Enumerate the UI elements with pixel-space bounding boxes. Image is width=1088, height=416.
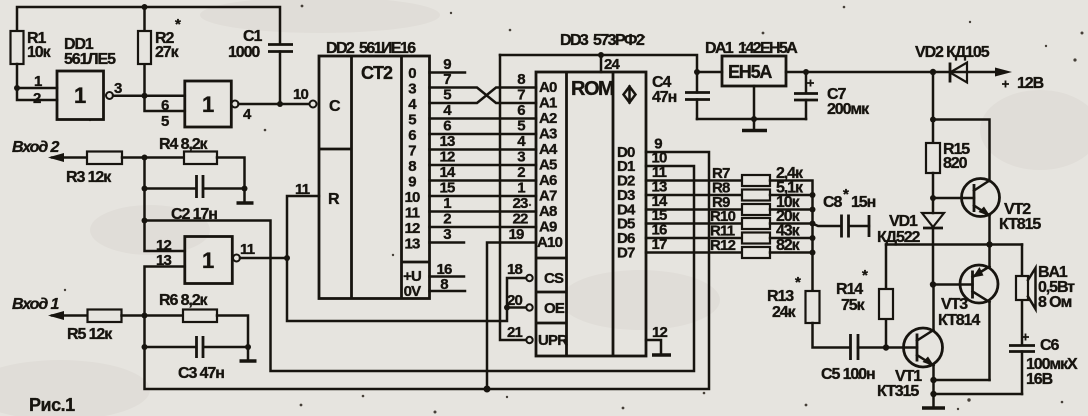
- svg-text:A9: A9: [539, 219, 557, 236]
- svg-text:16В: 16В: [1026, 371, 1053, 388]
- svg-text:11: 11: [405, 205, 420, 222]
- wire output9 to A6: [430, 179, 537, 182]
- wire D3 row: [646, 194, 742, 197]
- svg-text:11: 11: [295, 181, 310, 198]
- wire D5 row: [646, 222, 742, 225]
- resistor R8: [742, 190, 770, 201]
- wire VT1 collector to VT3 base node: [933, 285, 973, 331]
- wire R3 to R4: [122, 156, 184, 159]
- rom PROM diamond symbol: [624, 87, 636, 103]
- svg-text:C5 100н: C5 100н: [821, 366, 875, 383]
- node C1 bottom: [277, 101, 283, 107]
- svg-text:КТ814: КТ814: [938, 312, 980, 329]
- svg-text:1000: 1000: [228, 44, 260, 61]
- node R1 bottom junction: [14, 85, 20, 91]
- svg-text:5: 5: [517, 118, 525, 135]
- svg-text:13: 13: [404, 236, 420, 253]
- wire pin8 stub: [430, 290, 466, 293]
- wire pin24 stub: [600, 55, 603, 72]
- resistor R11: [742, 233, 770, 244]
- wire R6 right to ground: [217, 316, 248, 361]
- svg-text:14: 14: [439, 164, 456, 181]
- wire gate3 output: [240, 257, 287, 260]
- svg-text:24: 24: [604, 56, 621, 73]
- wire VD2 node down to R15: [932, 72, 935, 143]
- wire VT1 emitter chain to ground: [932, 366, 935, 408]
- op-amp DD1.1 gate: [57, 71, 104, 120]
- svg-text:C8: C8: [823, 194, 842, 211]
- svg-text:A6: A6: [539, 172, 557, 189]
- svg-text:0V: 0V: [404, 283, 422, 300]
- transistor VT3 КТ814: [960, 265, 998, 303]
- wire output node rail: [886, 243, 1022, 246]
- wire D7 row: [646, 251, 742, 254]
- svg-text:11: 11: [240, 241, 255, 258]
- op-amp DD1.3 gate: [185, 237, 233, 284]
- wire summing bus: [770, 181, 813, 292]
- svg-text:DD3 573РФ2: DD3 573РФ2: [560, 32, 645, 49]
- wire output8 to A5: [430, 164, 537, 167]
- resistor R12: [742, 247, 770, 258]
- svg-text:5: 5: [443, 87, 451, 104]
- svg-text:R14: R14: [836, 281, 863, 298]
- wire R1 bottom to gate inputs: [17, 64, 57, 100]
- svg-text:3: 3: [443, 226, 451, 243]
- wire pin16 stub: [430, 275, 465, 278]
- svg-text:820: 820: [943, 155, 968, 172]
- svg-text:3: 3: [517, 149, 525, 166]
- wire output6 to A3: [430, 133, 537, 136]
- wire output13 stub: [430, 241, 465, 244]
- svg-text:5: 5: [161, 113, 169, 130]
- svg-text:10: 10: [404, 189, 420, 206]
- svg-text:UPR: UPR: [538, 332, 568, 349]
- svg-text:8: 8: [408, 158, 416, 175]
- svg-text:A8: A8: [539, 203, 557, 220]
- svg-text:C1: C1: [243, 28, 262, 45]
- wire rom pin12 ground: [646, 340, 661, 354]
- svg-text:CS: CS: [544, 270, 564, 287]
- svg-text:A3: A3: [539, 126, 557, 143]
- capacitor C2: [145, 187, 245, 190]
- svg-text:23: 23: [512, 195, 528, 212]
- svg-text:3: 3: [408, 81, 416, 98]
- capacitor C8: [813, 224, 870, 227]
- svg-text:2: 2: [443, 211, 451, 228]
- wire input2 arrow: [52, 156, 87, 159]
- resistor R15: [926, 143, 940, 173]
- resistor R4: [184, 152, 217, 165]
- svg-text:13: 13: [156, 252, 172, 269]
- wire gate1 output to gate2 pin6: [113, 95, 185, 98]
- svg-text:8 Ом: 8 Ом: [1038, 294, 1071, 311]
- svg-text:3: 3: [114, 80, 122, 97]
- svg-text:A4: A4: [539, 141, 558, 158]
- rom DD3 box: [536, 72, 646, 356]
- wire ground rail under EH5A: [697, 86, 806, 129]
- svg-text:27к: 27к: [155, 44, 180, 61]
- svg-text:R13: R13: [767, 288, 794, 305]
- svg-text:R5 12к: R5 12к: [67, 326, 113, 343]
- svg-text:6: 6: [443, 118, 451, 135]
- node +12V arrow: [995, 68, 1012, 77]
- counter DD2 box: [319, 56, 430, 299]
- svg-text:1: 1: [443, 195, 451, 212]
- svg-text:A5: A5: [539, 157, 557, 174]
- svg-text:1: 1: [517, 180, 525, 197]
- wire input1 arrow: [52, 314, 88, 317]
- wire VT2 collector branch: [933, 120, 990, 182]
- capacitor C4: [685, 93, 710, 100]
- transistor VT1 КТ315: [904, 328, 943, 367]
- svg-text:R: R: [328, 191, 340, 208]
- wire EH5A right pin to VD2: [786, 71, 996, 74]
- resistor R10: [742, 218, 770, 229]
- resistor R14: [879, 289, 893, 319]
- capacitor C7: [805, 72, 808, 119]
- svg-text:561ЛЕ5: 561ЛЕ5: [64, 51, 116, 68]
- wire gate3 out to DD2 R and ROM CS/OE: [287, 196, 526, 321]
- capacitor C3: [145, 346, 249, 349]
- svg-text:C6: C6: [1040, 337, 1059, 354]
- svg-text:DD2 561ИЕ16: DD2 561ИЕ16: [326, 40, 416, 57]
- svg-text:20: 20: [507, 292, 523, 309]
- wire R4 right to ground: [217, 158, 245, 203]
- svg-text:47н: 47н: [652, 89, 677, 106]
- node UPR bubble: [526, 337, 532, 343]
- wire top rail R1 to C1: [17, 7, 280, 44]
- svg-text:R3 12к: R3 12к: [66, 169, 112, 186]
- svg-text:12: 12: [652, 324, 668, 341]
- wire output5 to A2: [430, 117, 537, 120]
- wire VT3 collector rail: [934, 379, 990, 382]
- svg-text:ROM: ROM: [571, 78, 614, 100]
- svg-text:7: 7: [517, 87, 525, 104]
- wire R13 bottom to C5: [813, 323, 850, 348]
- svg-text:C3 47н: C3 47н: [178, 365, 224, 382]
- transistor VT2 КТ815: [962, 179, 1000, 217]
- svg-text:EH5A: EH5A: [728, 62, 772, 82]
- node R5/R6 junction: [142, 313, 148, 319]
- svg-text:2: 2: [517, 164, 525, 181]
- svg-text:2: 2: [33, 90, 41, 107]
- wire output11 to A8: [430, 210, 537, 213]
- node gate3 output junction: [284, 255, 290, 261]
- wire output12 to A9: [430, 226, 537, 229]
- svg-text:D7: D7: [617, 245, 635, 262]
- wire D6 row: [646, 237, 742, 240]
- wire R13 from bus bottom: [811, 290, 814, 293]
- wire D1 feedback loop: [145, 166, 695, 371]
- node R2 bottom: [142, 93, 148, 99]
- op-amp DD1.2 gate: [185, 81, 232, 127]
- resistor R3: [87, 152, 122, 165]
- wire gate2 output to DD2 C: [239, 103, 310, 106]
- svg-text:Вход 1: Вход 1: [12, 296, 59, 313]
- svg-text:10к: 10к: [27, 44, 52, 61]
- wire output0 pin9 stub: [430, 71, 466, 74]
- svg-text:22: 22: [512, 211, 528, 228]
- svg-text:КТ315: КТ315: [877, 383, 919, 400]
- svg-text:200мк: 200мк: [827, 101, 870, 118]
- svg-text:Рис.1: Рис.1: [29, 395, 75, 415]
- node R3/R4 junction: [142, 155, 148, 161]
- svg-text:Вход 2: Вход 2: [12, 139, 59, 156]
- svg-text:КТ815: КТ815: [999, 216, 1041, 233]
- wire D4 row: [646, 208, 742, 211]
- wire input1 node to pin13 and bottom rail to D0: [145, 152, 710, 389]
- svg-text:13: 13: [439, 133, 455, 150]
- capacitor C5: [851, 334, 859, 360]
- resistor R9: [742, 204, 770, 215]
- svg-text:R6 8,2к: R6 8,2к: [159, 292, 209, 309]
- svg-text:OE: OE: [544, 300, 565, 317]
- svg-text:A1: A1: [539, 95, 557, 112]
- node CS bubble: [526, 275, 532, 281]
- resistor R13: [806, 291, 820, 323]
- svg-text:R12: R12: [710, 237, 736, 254]
- svg-text:9: 9: [408, 174, 416, 191]
- svg-text:12: 12: [404, 220, 420, 237]
- wire output3 to A1 crossover: [430, 88, 537, 104]
- wire D2 row: [646, 179, 742, 182]
- ground bar R4/C2: [237, 201, 254, 205]
- svg-text:8: 8: [440, 276, 448, 293]
- svg-text:7: 7: [443, 71, 451, 88]
- svg-text:A10: A10: [537, 234, 563, 251]
- svg-text:18: 18: [507, 261, 523, 278]
- svg-text:0: 0: [408, 65, 416, 82]
- svg-text:1: 1: [74, 83, 86, 108]
- wire output10 to A7: [430, 195, 537, 198]
- svg-text:VD1: VD1: [889, 213, 918, 230]
- wire UPR to +5V rail: [500, 55, 526, 340]
- ground bar R6/C3: [240, 359, 257, 363]
- node C3 right junction: [245, 344, 251, 350]
- svg-text:R4 8,2к: R4 8,2к: [159, 136, 209, 153]
- svg-text:CT2: CT2: [361, 63, 393, 83]
- svg-text:24к: 24к: [772, 304, 797, 321]
- svg-text:A7: A7: [539, 188, 557, 205]
- wire C6 return rail: [934, 393, 1023, 396]
- svg-text:A2: A2: [539, 110, 557, 127]
- svg-text:15н: 15н: [851, 194, 876, 211]
- regulator DA1 box: [722, 56, 786, 86]
- svg-text:8: 8: [517, 71, 525, 88]
- svg-text:12В: 12В: [1017, 75, 1044, 92]
- svg-text:6: 6: [161, 97, 169, 114]
- svg-text:A0: A0: [539, 79, 557, 96]
- svg-text:7: 7: [408, 143, 416, 160]
- wire EH5A left pin: [697, 71, 722, 74]
- svg-text:VT3: VT3: [941, 296, 968, 313]
- wire output to speaker: [1021, 245, 1024, 395]
- wire input2 node vertical to pin 12: [145, 158, 185, 252]
- wire R5 to R6: [122, 314, 184, 317]
- wire R2 node to gate2 pin5: [145, 96, 185, 111]
- wire output7 to A4: [430, 148, 537, 151]
- svg-text:1: 1: [202, 248, 214, 273]
- ground bar EH5A: [742, 129, 767, 133]
- node OE bubble: [526, 304, 532, 310]
- svg-text:6: 6: [517, 102, 525, 119]
- svg-text:1: 1: [202, 92, 214, 117]
- wire +5V rail to EH5A: [500, 55, 697, 119]
- svg-text:75к: 75к: [841, 297, 866, 314]
- wire R15 bottom to VT2 base: [933, 173, 974, 213]
- resistor R5: [88, 310, 122, 323]
- resistor R2: [143, 7, 146, 96]
- wire R14: [885, 245, 888, 348]
- svg-text:15: 15: [439, 180, 455, 197]
- svg-text:10: 10: [293, 86, 309, 103]
- wire A10 from input1 rail: [487, 243, 536, 390]
- resistor R7: [742, 175, 770, 186]
- svg-text:19: 19: [508, 226, 524, 243]
- svg-text:6: 6: [408, 127, 416, 144]
- capacitor C6: [1009, 346, 1035, 352]
- svg-text:21: 21: [507, 324, 523, 341]
- ground bar VT1 emitter: [922, 406, 945, 410]
- node C2 right junction: [242, 186, 248, 192]
- svg-text:VD2 КД105: VD2 КД105: [915, 44, 990, 61]
- wire output4 to A0 crossover: [430, 88, 537, 104]
- node DD2 C input bubble: [310, 101, 317, 108]
- resistor R1: [11, 31, 24, 64]
- speaker BA1: [1016, 276, 1028, 300]
- svg-text:C: C: [329, 98, 341, 115]
- svg-text:1: 1: [34, 73, 42, 90]
- svg-text:DA1 142ЕН5А: DA1 142ЕН5А: [705, 40, 798, 57]
- svg-text:12: 12: [439, 149, 455, 166]
- resistor R6: [183, 310, 217, 323]
- svg-text:5: 5: [408, 112, 416, 129]
- capacitor C1: [268, 45, 293, 52]
